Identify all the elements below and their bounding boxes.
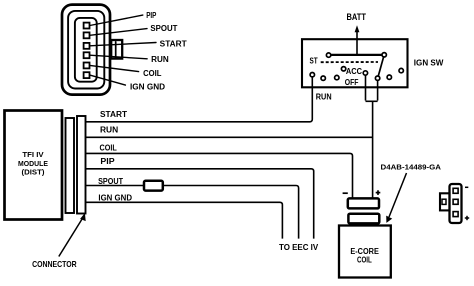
- svg-text:D4AB-14489-GA: D4AB-14489-GA: [381, 163, 442, 172]
- connector J1 latch tab outer: [111, 40, 122, 59]
- terminal OFF: [375, 76, 379, 80]
- wire COIL from module connector to coil negative: [85, 153, 353, 198]
- leader arrow to connector bar: [59, 218, 83, 257]
- svg-text:RUN: RUN: [151, 55, 169, 64]
- svg-text:ACC: ACC: [346, 67, 362, 76]
- svg-text:RUN: RUN: [100, 125, 119, 134]
- TFI module U1 box: [5, 111, 63, 220]
- terminal T2: [321, 76, 325, 80]
- svg-text:TO EEC IV: TO EEC IV: [279, 243, 319, 252]
- coil pigtail latch outer: [440, 193, 450, 210]
- label pigtail positive sign: [465, 216, 469, 220]
- terminal T7: [387, 75, 391, 79]
- connector J1 latch tab divider: [115, 42, 117, 57]
- wire RUN from module connector to coil positive stem: [85, 136, 373, 138]
- leader line pin4 to RUN label: [90, 55, 147, 59]
- wire IGN GND from module connector down to EEC: [85, 202, 282, 238]
- module connector bar 1: [66, 118, 75, 213]
- svg-text:IGN GND: IGN GND: [130, 83, 165, 92]
- pin 6 IGN GND: [84, 72, 90, 78]
- pin 2 SPOUT: [84, 32, 90, 38]
- coil connector bar upper: [348, 198, 379, 208]
- coil pigtail pin 3: [453, 212, 458, 217]
- svg-text:IGN SW: IGN SW: [414, 57, 444, 67]
- svg-text:START: START: [100, 110, 127, 119]
- module connector bar 2: [77, 116, 86, 214]
- terminal T3: [335, 75, 339, 79]
- label coil negative sign: [343, 192, 348, 194]
- svg-text:PIP: PIP: [100, 157, 114, 166]
- svg-text:CONNECTOR: CONNECTOR: [32, 260, 77, 269]
- terminal B2 wiper right: [382, 53, 386, 57]
- coil pigtail pin 1: [453, 188, 458, 193]
- svg-text:SPOUT: SPOUT: [150, 24, 177, 33]
- inline connector on SPOUT wire: [144, 181, 163, 191]
- terminal T8: [399, 68, 403, 72]
- connector J1 distributor connector outer shell: [62, 5, 110, 95]
- label pigtail negative sign: [465, 186, 468, 188]
- terminal B1 wiper left: [326, 53, 330, 57]
- terminal ACC: [363, 71, 367, 75]
- pin 5 COIL: [84, 63, 90, 69]
- connector J1 middle shell: [68, 11, 104, 89]
- wire U bottom bar joining drops: [366, 100, 378, 102]
- switch actuator diagonal: [378, 57, 383, 76]
- coil pigtail pin 2: [453, 199, 458, 204]
- wire SPOUT from module connector down to EEC: [85, 186, 299, 239]
- svg-text:BATT: BATT: [347, 12, 367, 22]
- pin 4 RUN: [84, 52, 90, 58]
- svg-text:SPOUT: SPOUT: [98, 177, 123, 186]
- pin 1 PIP: [84, 23, 90, 29]
- switch wiper bar: [330, 54, 383, 56]
- arrowhead BATT: [355, 25, 360, 32]
- svg-text:COIL: COIL: [143, 69, 162, 78]
- wire BATT feed: [356, 31, 358, 55]
- terminal ST: [310, 73, 314, 77]
- leader arrow to coil housing: [389, 173, 407, 217]
- pin 3 START: [84, 43, 90, 49]
- svg-text:TFI IV: TFI IV: [22, 150, 44, 159]
- arrowhead connector leader: [80, 213, 86, 221]
- terminal T4 above ACC: [341, 67, 345, 71]
- leader line pin5 to COIL label: [90, 65, 139, 71]
- svg-text:COIL: COIL: [357, 256, 372, 265]
- ignition switch SW1 box: [302, 39, 408, 87]
- svg-text:IGN GND: IGN GND: [98, 193, 132, 202]
- label coil positive sign: [376, 190, 381, 195]
- wire PIP from module connector down to EEC: [85, 169, 314, 239]
- leader line pin6 to IGN GND label: [90, 75, 126, 85]
- coil pigtail connector P1 body: [450, 184, 462, 223]
- svg-text:COIL: COIL: [100, 144, 118, 153]
- wire START from module connector to switch ST terminal: [85, 77, 312, 122]
- coil connector bar lower: [348, 214, 379, 224]
- leader line pin1 to PIP label: [90, 15, 143, 25]
- E-core coil T1 box: [339, 226, 391, 278]
- coil pigtail latch inner: [442, 199, 446, 204]
- svg-text:START: START: [160, 39, 187, 48]
- wire ACC terminal drop: [365, 75, 367, 101]
- leader line pin2 to SPOUT label: [90, 29, 147, 36]
- svg-text:OFF: OFF: [345, 78, 359, 87]
- arrowhead coil leader: [386, 216, 392, 223]
- wire OFF terminal drop: [377, 80, 379, 100]
- svg-text:RUN: RUN: [316, 92, 332, 101]
- leader line pin3 to START label: [90, 43, 156, 46]
- svg-text:PIP: PIP: [146, 11, 156, 20]
- svg-text:ST: ST: [310, 56, 318, 65]
- connector J1 inner cavity: [75, 18, 97, 82]
- wire stem to coil positive: [372, 101, 374, 198]
- svg-text:(DIST): (DIST): [22, 167, 45, 176]
- dashed travel line: [321, 61, 378, 63]
